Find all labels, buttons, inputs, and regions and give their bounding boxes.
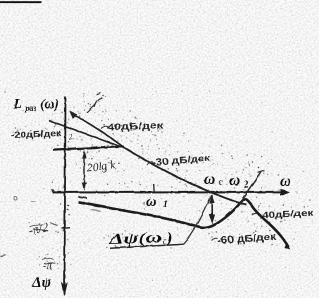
scrawled 2 near axis bbox=[67, 131, 74, 142]
20lgk level line bbox=[53, 146, 124, 149]
omega_1 tick bbox=[152, 184, 154, 192]
svg-text:ω: ω bbox=[229, 172, 240, 189]
label -pi/2 bbox=[27, 220, 49, 237]
svg-text:Δψ: Δψ bbox=[31, 275, 51, 291]
axis origin blob bbox=[51, 189, 54, 192]
svg-text:ω: ω bbox=[280, 173, 291, 190]
-20 dB/dec asymptote segment bbox=[49, 121, 123, 148]
svg-text:раз: раз bbox=[24, 104, 36, 113]
label 40 dB/dec bbox=[101, 126, 109, 128]
svg-text:Δψ(ω: Δψ(ω bbox=[107, 230, 162, 248]
label -20 dB/dec bbox=[11, 127, 62, 140]
noise specks bbox=[3, 88, 317, 292]
pointer line from label to omega_c bbox=[183, 195, 211, 244]
LAH mid-frequency segment (-30 dB/dec), crosses axis at omega_c bbox=[123, 147, 247, 205]
curve end arrowhead bbox=[284, 243, 291, 250]
svg-text:ω: ω bbox=[146, 194, 157, 210]
stray small o bbox=[13, 196, 16, 199]
slash mark near omega_2 bbox=[239, 172, 262, 205]
omega axis (frequency axis) bbox=[52, 191, 282, 193]
label -40 dB/dec (lower right) bbox=[252, 213, 258, 215]
svg-text:L: L bbox=[12, 96, 22, 112]
svg-text:c: c bbox=[162, 236, 166, 246]
Delta-psi(omega_c) dimension arrow at omega_c bbox=[211, 197, 213, 219]
omega axis arrowhead bbox=[280, 188, 290, 195]
svg-text:2: 2 bbox=[244, 180, 249, 191]
label Delta-psi(omega_c) bbox=[107, 229, 172, 248]
left edge stray dash bbox=[0, 255, 6, 256]
-40 dB/dec construction line bbox=[72, 114, 123, 147]
L axis (vertical magnitude/phase axis) bbox=[64, 97, 65, 295]
slash top tick bbox=[258, 170, 265, 172]
phase axis small ticks bbox=[67, 204, 69, 207]
construction line arrowhead bbox=[69, 111, 77, 119]
svg-text:-π: -π bbox=[43, 260, 54, 272]
-pi/2 tick bbox=[62, 226, 70, 229]
label 20lg k bbox=[86, 159, 117, 174]
label -30 dB/dec bbox=[147, 162, 153, 165]
label -60 dB/dec bbox=[211, 238, 217, 240]
L axis down arrowhead (Delta-psi direction) bbox=[61, 282, 68, 297]
top-left page rule bbox=[0, 1, 42, 3]
phase / real LAH curve bbox=[78, 199, 289, 248]
svg-text:40дБ/дек: 40дБ/дек bbox=[107, 120, 164, 133]
svg-text:1: 1 bbox=[163, 200, 168, 210]
short dash below axis bbox=[78, 197, 86, 198]
handwritten scribble above construction line bbox=[87, 93, 103, 113]
20lgk dimension arrow bbox=[83, 152, 85, 188]
svg-text:(ω): (ω) bbox=[40, 96, 59, 111]
svg-text:ω: ω bbox=[204, 171, 215, 188]
label pointer underline for Delta-psi(omega_c) bbox=[110, 244, 184, 248]
